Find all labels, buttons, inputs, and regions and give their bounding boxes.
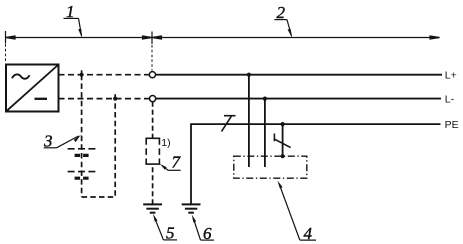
resistor 7 (dashed body) [145,138,160,164]
svg-text:PE: PE [445,119,459,131]
node L+ drop junction [247,73,251,77]
extension line left (dashed drop to converter) [5,44,7,63]
dimension line 1 [6,31,153,44]
node battery tap on L+ [80,73,84,77]
label 2 leader [274,20,291,36]
converter AC tilde [12,74,30,78]
terminal circle L- [150,96,156,102]
battery 3 cell 1 negative plate [75,154,89,157]
battery 3 cell 2 positive plate [68,171,96,173]
node battery return tap on L- [113,97,117,101]
converter DC minus [35,98,48,100]
wire L- drop to load [264,99,266,167]
load box 4 (dash-dot enclosure) [234,156,307,178]
battery 3 cell 2 negative plate [75,177,89,180]
svg-text:2: 2 [277,3,286,22]
converter diagonal [7,65,58,111]
svg-text:1): 1) [161,137,170,149]
label 4 leader [279,184,300,241]
node PE-link junction [281,122,285,126]
dimension line 2 [152,32,440,45]
label 5 leader [155,218,164,240]
ground 6 (earth) [182,204,201,212]
disconnect link on earth link [274,134,290,148]
svg-text:L-: L- [445,93,455,105]
wire L+ drop to load [248,75,250,167]
wire L- [156,98,441,100]
terminal circle L+ [149,72,155,78]
wire L+ dashed stub [59,74,150,76]
wire equipment earth link [282,124,284,156]
label 7 leader [163,166,169,171]
disconnect link on PE [222,116,236,132]
wire L+ [156,74,442,76]
svg-text:1: 1 [66,2,75,21]
battery 3 cell 1 positive plate [68,148,96,150]
node link-box junction [281,154,285,158]
wire L- dashed stub [59,98,150,100]
converter U1 box (AC/DC) [6,65,59,112]
svg-text:L+: L+ [445,69,457,81]
label 3 leader [57,136,79,148]
ground 5 (earth) [143,204,162,212]
wire PE [191,124,441,203]
node L- drop junction [263,97,267,101]
wire resistor top lead (dashed) [152,102,154,139]
wire battery branch from L+ (dashed) [81,75,83,197]
label 6 leader [193,218,200,240]
wire resistor bottom lead (dashed) [152,164,154,204]
extension line mid (dashed drop to terminal) [151,45,153,71]
label 1 leader [64,18,82,36]
wire battery bottom return (dashed) [82,99,116,197]
